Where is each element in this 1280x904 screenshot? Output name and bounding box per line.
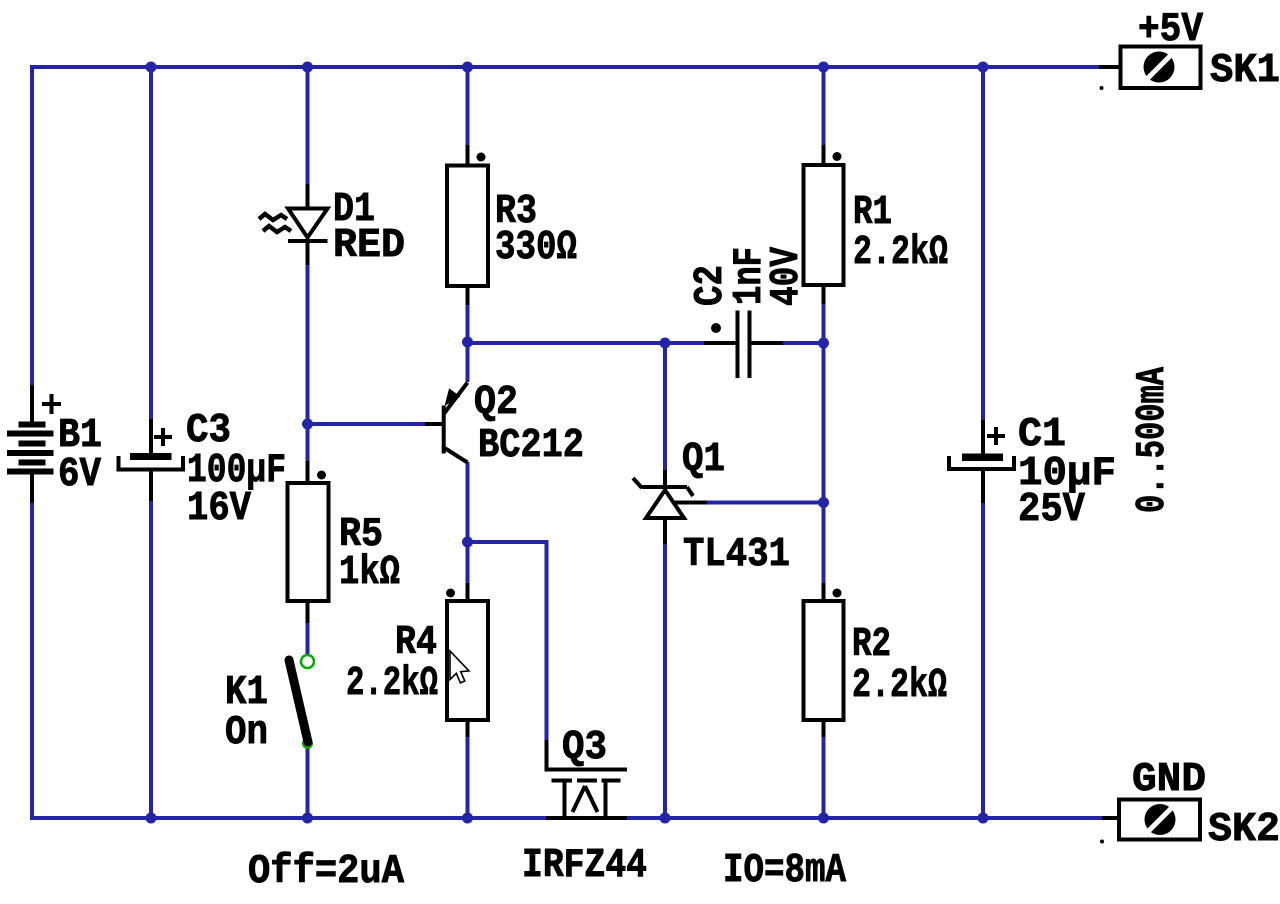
svg-text:R2: R2 <box>852 622 891 668</box>
svg-text:Q1: Q1 <box>682 437 725 483</box>
svg-text:0..500mA: 0..500mA <box>1130 367 1176 513</box>
svg-text:R4: R4 <box>395 620 437 666</box>
svg-text:25V: 25V <box>1018 487 1085 533</box>
svg-text:+5V: +5V <box>1138 7 1203 53</box>
svg-text:SK2: SK2 <box>1208 807 1280 853</box>
svg-text:Q3: Q3 <box>562 725 607 771</box>
svg-text:6V: 6V <box>58 452 101 498</box>
svg-text:Q2: Q2 <box>474 380 518 426</box>
svg-text:330Ω: 330Ω <box>495 225 577 271</box>
svg-text:1kΩ: 1kΩ <box>339 550 400 596</box>
svg-text:2.2kΩ: 2.2kΩ <box>346 661 438 707</box>
svg-text:IO=8mA: IO=8mA <box>723 848 846 894</box>
svg-text:2.2kΩ: 2.2kΩ <box>852 663 947 709</box>
svg-text:2.2kΩ: 2.2kΩ <box>853 230 948 276</box>
svg-text:40V: 40V <box>764 247 810 306</box>
svg-text:GND: GND <box>1132 757 1206 803</box>
svg-text:BC212: BC212 <box>478 423 584 469</box>
svg-text:IRFZ44: IRFZ44 <box>522 843 647 889</box>
svg-text:RED: RED <box>333 223 405 269</box>
svg-text:SK1: SK1 <box>1210 48 1280 94</box>
svg-text:Off=2uA: Off=2uA <box>248 849 404 895</box>
svg-text:On: On <box>225 710 268 756</box>
svg-text:TL431: TL431 <box>683 532 790 578</box>
svg-text:16V: 16V <box>187 486 251 532</box>
